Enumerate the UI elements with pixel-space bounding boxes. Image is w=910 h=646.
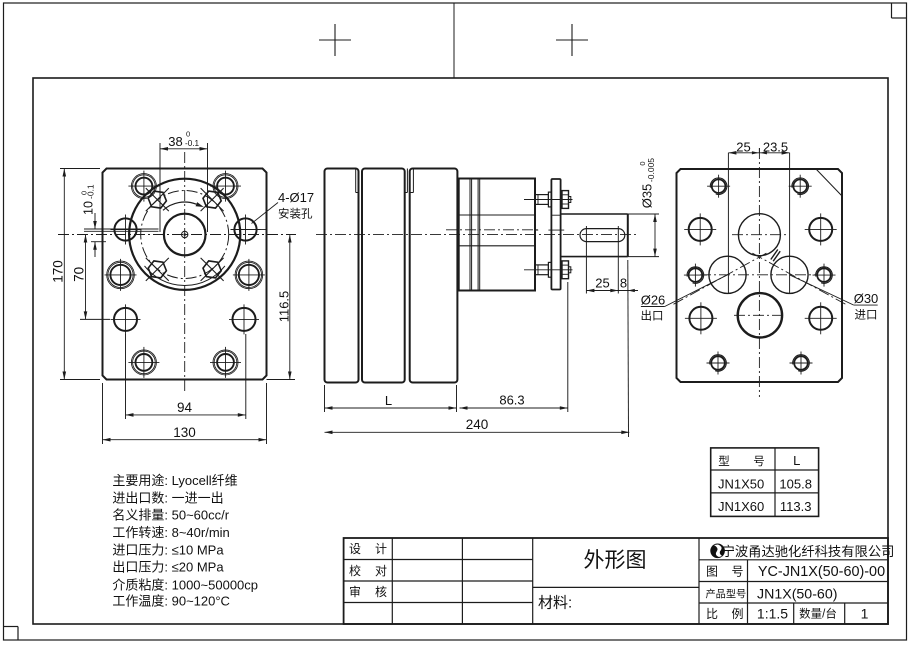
svg-text:出口压力: ≤20 MPa: 出口压力: ≤20 MPa [112,560,224,575]
svg-text:外形图: 外形图 [584,549,647,572]
svg-text:数量/台: 数量/台 [799,607,837,621]
svg-text:94: 94 [177,400,193,415]
svg-text:170: 170 [51,260,66,283]
svg-text:0: 0 [186,130,190,139]
svg-text:-0.1: -0.1 [86,184,96,199]
svg-text:产品型号: 产品型号 [706,588,747,601]
svg-text:-0.005: -0.005 [646,158,656,182]
svg-text:10: 10 [82,201,96,215]
svg-text:比: 比 [706,607,718,621]
svg-text:-0.1: -0.1 [185,139,200,148]
svg-text:对: 对 [375,564,387,578]
svg-text:宁波甬达驰化纤科技有限公司: 宁波甬达驰化纤科技有限公司 [722,543,895,559]
svg-text:主要用途: Lyocell纤维: 主要用途: Lyocell纤维 [112,473,237,488]
svg-text:8: 8 [620,276,627,291]
svg-text:25: 25 [595,276,609,291]
svg-text:图: 图 [706,564,718,578]
svg-text:240: 240 [466,417,489,432]
svg-text:例: 例 [732,607,744,621]
svg-text:进出口数: 一进一出: 进出口数: 一进一出 [112,490,223,505]
svg-text:86.3: 86.3 [499,393,524,408]
svg-text:Ø35: Ø35 [640,184,655,209]
svg-text:工作温度: 90~120°C: 工作温度: 90~120°C [112,594,230,609]
svg-text:25: 25 [736,140,750,155]
svg-text:型: 型 [718,454,730,468]
svg-text:工作转速: 8~40r/min: 工作转速: 8~40r/min [112,525,229,540]
svg-text:审: 审 [349,584,361,599]
svg-text:号: 号 [732,564,744,578]
svg-text:4-Ø17: 4-Ø17 [278,190,314,205]
svg-text:材料:: 材料: [538,595,572,612]
svg-text:Ø30: Ø30 [854,291,879,306]
svg-text:L: L [793,453,800,468]
svg-text:出口: 出口 [641,309,664,323]
svg-text:70: 70 [72,267,87,282]
svg-text:介质粘度: 1000~50000cp: 介质粘度: 1000~50000cp [112,577,258,592]
svg-text:进口压力: ≤10 MPa: 进口压力: ≤10 MPa [112,543,224,558]
svg-text:计: 计 [375,542,387,556]
svg-text:JN1X(50-60): JN1X(50-60) [757,587,837,603]
svg-text:Ø26: Ø26 [641,293,666,308]
svg-text:38: 38 [168,134,182,149]
svg-text:校: 校 [349,563,361,578]
svg-text:设: 设 [349,542,361,556]
svg-text:1: 1 [861,605,869,621]
svg-text:JN1X50: JN1X50 [718,476,764,491]
svg-text:23.5: 23.5 [763,140,788,155]
svg-text:1:1.5: 1:1.5 [757,605,788,621]
svg-text:名义排量: 50~60cc/r: 名义排量: 50~60cc/r [112,508,229,523]
svg-text:号: 号 [753,455,765,468]
svg-text:安装孔: 安装孔 [278,207,313,221]
svg-text:105.8: 105.8 [779,476,812,491]
svg-text:YC-JN1X(50-60)-00: YC-JN1X(50-60)-00 [758,564,885,580]
svg-text:进口: 进口 [855,309,878,322]
svg-text:116.5: 116.5 [277,291,292,323]
svg-text:核: 核 [375,585,387,599]
svg-text:JN1X60: JN1X60 [718,499,764,514]
svg-text:113.3: 113.3 [780,499,812,514]
svg-text:L: L [385,393,392,408]
svg-text:130: 130 [173,425,196,440]
